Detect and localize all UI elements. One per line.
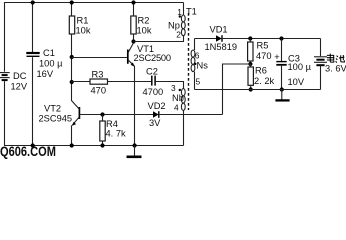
node Ns phase dot bbox=[194, 63, 196, 65]
wire bottom rail bbox=[4, 145, 184, 147]
node R5 R6 junction bbox=[248, 62, 252, 66]
svg-text:3: 3 bbox=[171, 83, 176, 93]
svg-text:R3: R3 bbox=[92, 69, 104, 79]
svg-text:VD1: VD1 bbox=[210, 25, 228, 35]
transistor VT2 bbox=[72, 101, 80, 126]
svg-text:12V: 12V bbox=[11, 81, 28, 91]
svg-text:R6: R6 bbox=[255, 66, 267, 76]
svg-text:2. 2k: 2. 2k bbox=[254, 76, 275, 86]
svg-text:DC: DC bbox=[13, 71, 27, 81]
node R4 bottom bbox=[100, 143, 104, 147]
label battery 电池 bbox=[327, 54, 345, 63]
svg-text:C1: C1 bbox=[43, 48, 55, 58]
node Nb phase dot bbox=[179, 89, 181, 91]
svg-text:VD2: VD2 bbox=[148, 101, 166, 111]
node R2 top bbox=[131, 0, 135, 4]
svg-text:10k: 10k bbox=[76, 26, 91, 36]
node C1 top bbox=[31, 0, 35, 4]
svg-text:C2: C2 bbox=[146, 67, 158, 77]
svg-text:2: 2 bbox=[176, 30, 181, 40]
wire left vertical lower bbox=[4, 81, 6, 145]
wire left vertical upper bbox=[4, 3, 6, 72]
node VT2 emitter ground bbox=[70, 143, 74, 147]
diode VD2 bbox=[153, 111, 223, 118]
node C3 bottom / ground bbox=[280, 87, 284, 91]
wire VT2 emitter down bbox=[71, 125, 73, 145]
resistor R2 bbox=[131, 3, 136, 42]
wire VT1 emitter down bbox=[134, 66, 136, 146]
svg-text:470: 470 bbox=[91, 86, 107, 96]
node VT1 base junction bbox=[70, 55, 74, 59]
wire output rail bbox=[195, 89, 321, 91]
wire feedback riser bbox=[223, 64, 251, 115]
node C1 bottom bbox=[31, 143, 35, 147]
svg-text:5: 5 bbox=[196, 76, 201, 86]
svg-text:Np: Np bbox=[168, 21, 180, 31]
svg-text:1N5819: 1N5819 bbox=[205, 42, 238, 52]
node VT1 emitter ground bbox=[133, 143, 137, 147]
node R1 top bbox=[70, 0, 74, 4]
svg-text:T1: T1 bbox=[186, 6, 197, 16]
ground output bbox=[275, 90, 289, 101]
svg-text:16V: 16V bbox=[37, 69, 54, 79]
svg-text:100 µ: 100 µ bbox=[39, 59, 63, 69]
winding Nb bbox=[181, 89, 185, 146]
node C3 top bbox=[279, 36, 283, 40]
resistor R4 bbox=[100, 115, 105, 146]
node R6 bottom bbox=[249, 87, 253, 91]
wire VT1 base bbox=[72, 57, 128, 59]
svg-text:470: 470 bbox=[256, 51, 272, 61]
svg-text:4700: 4700 bbox=[143, 87, 164, 97]
node R3 left junction bbox=[70, 80, 74, 84]
node R4 top bbox=[100, 112, 104, 116]
svg-text:1: 1 bbox=[177, 7, 182, 17]
node Np phase dot bbox=[179, 15, 181, 17]
svg-text:R2: R2 bbox=[138, 16, 150, 26]
svg-text:+: + bbox=[274, 52, 279, 62]
capacitor C3 bbox=[276, 39, 286, 90]
transistor VT1 bbox=[128, 43, 135, 67]
svg-text:VT2: VT2 bbox=[44, 104, 61, 114]
svg-text:3V: 3V bbox=[149, 118, 161, 128]
svg-text:Q606.COM: Q606.COM bbox=[0, 144, 56, 159]
svg-text:10k: 10k bbox=[137, 26, 152, 36]
svg-text:2SC945: 2SC945 bbox=[39, 114, 73, 124]
resistor R5 bbox=[248, 39, 253, 65]
wire top rail bbox=[4, 2, 184, 4]
svg-text:R1: R1 bbox=[77, 16, 89, 26]
wire base net to R3 bbox=[72, 81, 91, 83]
winding Np bbox=[134, 3, 186, 42]
node VT1 collector junction bbox=[131, 39, 135, 43]
svg-text:4: 4 bbox=[174, 103, 179, 113]
svg-text:R5: R5 bbox=[257, 41, 269, 51]
svg-text:10V: 10V bbox=[288, 77, 305, 87]
svg-text:100 µ: 100 µ bbox=[288, 62, 312, 72]
resistor R6 bbox=[248, 64, 253, 90]
svg-text:Ns: Ns bbox=[197, 61, 209, 71]
capacitor C1 bbox=[26, 3, 39, 146]
svg-text:6: 6 bbox=[195, 50, 200, 60]
transformer T1 core bbox=[188, 13, 190, 110]
DC source B1 bbox=[0, 73, 10, 81]
svg-text:2SC2500: 2SC2500 bbox=[134, 53, 171, 63]
battery output bbox=[314, 39, 327, 90]
wire VT2 base / feedback bbox=[79, 114, 153, 116]
svg-text:R4: R4 bbox=[106, 119, 118, 129]
resistor R1 bbox=[69, 3, 74, 102]
ground main bbox=[127, 146, 142, 157]
resistor R3 bbox=[90, 79, 108, 84]
capacitor C2 bbox=[152, 76, 155, 86]
node R5 top bbox=[248, 36, 252, 40]
diode VD1 bbox=[216, 35, 321, 42]
wire Ns pin6 to VD1 bbox=[195, 38, 217, 40]
wire C2 to Nb pin3 bbox=[156, 82, 184, 89]
wire R3 to C2 bbox=[108, 81, 152, 83]
winding Ns bbox=[191, 39, 195, 90]
svg-text:3. 6V: 3. 6V bbox=[325, 64, 346, 74]
svg-text:Nb: Nb bbox=[172, 93, 184, 103]
svg-text:4. 7k: 4. 7k bbox=[106, 129, 127, 139]
